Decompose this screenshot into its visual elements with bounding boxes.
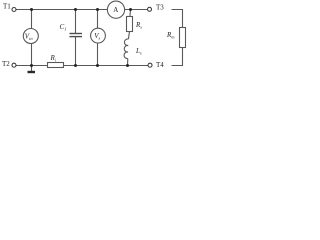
wire top: ammeter to T3 [125, 9, 148, 11]
capacitor C1 plates [70, 34, 83, 37]
resistor Ri box [48, 63, 64, 68]
wire ground stub [31, 66, 33, 72]
svg-text:T3: T3 [156, 4, 164, 12]
svg-text:A: A [113, 6, 118, 14]
wire C1 branch top [75, 10, 77, 34]
terminal T2 [12, 63, 16, 67]
junction bottom C1 [74, 64, 77, 67]
svg-text:T4: T4 [156, 61, 164, 69]
wire below Ls [127, 59, 129, 66]
terminal T3 [148, 7, 152, 11]
source Vs circle [91, 28, 106, 43]
ground bar [28, 71, 36, 73]
svg-text:T2: T2 [2, 60, 10, 68]
junction bottom Vin/ground [30, 64, 33, 67]
resistor Rs box [127, 17, 133, 32]
inductor Ls coil [124, 39, 128, 59]
wire bottom: T2 to resistor Ri [16, 65, 48, 67]
wire top: T1 to ammeter [16, 9, 107, 11]
junction top C1 [74, 8, 77, 11]
wire between Rs and Ls [128, 32, 129, 40]
junction top Vin [30, 8, 33, 11]
wire Vin branch top [31, 10, 33, 29]
wire Vin branch bottom [31, 44, 33, 66]
junction bottom Vs [96, 64, 99, 67]
terminal T1 [12, 8, 16, 12]
terminal T4 [148, 63, 152, 67]
wire Vs branch bottom [97, 43, 99, 66]
junction bottom Ls [126, 64, 129, 67]
wire Rm top stub [172, 10, 183, 28]
source Vin circle [23, 29, 38, 44]
svg-text:T1: T1 [3, 3, 11, 11]
wire Vs branch top [97, 10, 99, 29]
junction top Rs [129, 8, 132, 11]
junction top Vs [96, 8, 99, 11]
wire bottom: resistor Ri to T4 [64, 65, 149, 67]
ammeter A circle [107, 1, 124, 18]
resistor Rm box [180, 28, 186, 48]
wire Rs branch top [129, 10, 132, 17]
wire Rm bottom stub [172, 48, 183, 66]
wire C1 branch bottom [75, 37, 77, 66]
